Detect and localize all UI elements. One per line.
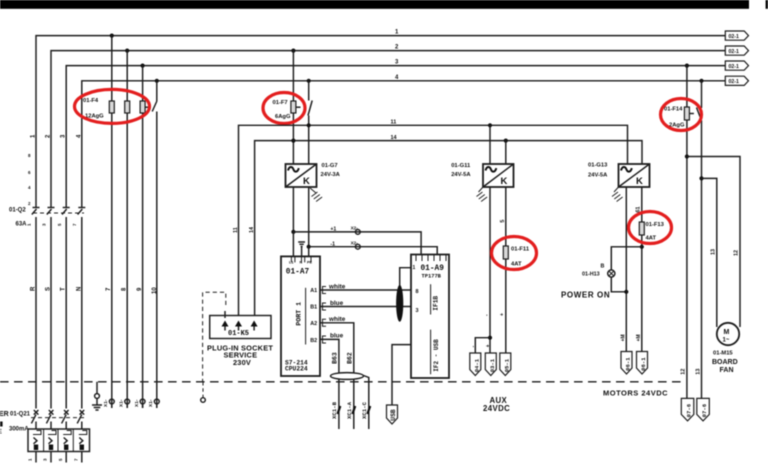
svg-text:05-1: 05-1 bbox=[503, 358, 510, 372]
svg-text:02-1: 02-1 bbox=[729, 79, 739, 85]
svg-text:A2: A2 bbox=[310, 321, 317, 327]
svg-text:11: 11 bbox=[233, 227, 239, 233]
svg-text:PE: PE bbox=[307, 261, 313, 265]
svg-text:1~: 1~ bbox=[723, 338, 730, 344]
svg-text:01-M15: 01-M15 bbox=[713, 351, 733, 357]
svg-text:IF2 - USB: IF2 - USB bbox=[433, 339, 440, 372]
svg-text:4AT: 4AT bbox=[511, 262, 522, 268]
svg-text:01-F4: 01-F4 bbox=[83, 98, 99, 104]
svg-text:X2-: X2- bbox=[351, 240, 359, 245]
svg-text:USB: USB bbox=[390, 409, 397, 421]
svg-text:K: K bbox=[501, 176, 508, 187]
svg-text:14: 14 bbox=[249, 226, 255, 233]
svg-text:N: N bbox=[76, 287, 82, 291]
svg-text:ER: ER bbox=[0, 411, 9, 418]
svg-text:X1-: X1- bbox=[134, 399, 140, 407]
svg-text:L1: L1 bbox=[289, 261, 293, 265]
svg-text:11: 11 bbox=[391, 119, 397, 125]
svg-text:02-1: 02-1 bbox=[729, 49, 739, 55]
svg-text:XC1-A: XC1-A bbox=[346, 401, 353, 419]
svg-text:X1-: X1- bbox=[148, 399, 154, 407]
svg-text:X2-: X2- bbox=[351, 226, 359, 231]
svg-text:B1: B1 bbox=[310, 305, 317, 311]
svg-text:230V: 230V bbox=[233, 358, 251, 367]
svg-text:24VDC: 24VDC bbox=[483, 404, 510, 413]
svg-text:01-G7: 01-G7 bbox=[322, 163, 338, 169]
svg-text:01-Q2: 01-Q2 bbox=[9, 208, 26, 214]
svg-text:A1: A1 bbox=[310, 288, 317, 294]
svg-text:24V-5A: 24V-5A bbox=[451, 172, 471, 178]
svg-text:X1-: X1- bbox=[103, 399, 109, 407]
svg-text:X1-: X1- bbox=[118, 399, 124, 407]
svg-text:MOTORS 24VDC: MOTORS 24VDC bbox=[603, 389, 668, 398]
svg-text:01-K5: 01-K5 bbox=[228, 330, 249, 338]
svg-text:03-1: 03-1 bbox=[489, 358, 496, 372]
svg-text:07-6: 07-6 bbox=[701, 403, 708, 417]
svg-text:13: 13 bbox=[711, 249, 717, 255]
svg-text:01-F7: 01-F7 bbox=[273, 100, 288, 106]
svg-text:01-H13: 01-H13 bbox=[582, 272, 600, 278]
svg-text:300mA: 300mA bbox=[9, 426, 29, 432]
svg-text:M: M bbox=[724, 329, 730, 336]
svg-text:B2: B2 bbox=[310, 338, 317, 344]
svg-text:B62: B62 bbox=[347, 352, 354, 364]
svg-text:8: 8 bbox=[416, 289, 419, 295]
svg-text:1: 1 bbox=[413, 265, 416, 271]
svg-text:B: B bbox=[601, 263, 605, 269]
svg-text:+M: +M bbox=[636, 334, 642, 341]
svg-text:06-1: 06-1 bbox=[625, 357, 632, 371]
svg-text:+M: +M bbox=[621, 334, 627, 341]
svg-text:K: K bbox=[303, 176, 310, 187]
svg-text:01-F14: 01-F14 bbox=[664, 107, 683, 113]
svg-text:POWER ON: POWER ON bbox=[561, 291, 610, 300]
svg-text:PORT 1: PORT 1 bbox=[296, 302, 303, 326]
svg-text:+: + bbox=[485, 344, 491, 347]
svg-text:R: R bbox=[31, 286, 37, 291]
svg-text:10: 10 bbox=[152, 287, 158, 294]
svg-text:S: S bbox=[46, 287, 52, 291]
svg-text:02-1: 02-1 bbox=[729, 64, 739, 70]
svg-text:14: 14 bbox=[391, 135, 398, 141]
svg-text:6AgG: 6AgG bbox=[275, 114, 291, 120]
svg-text:B63: B63 bbox=[332, 352, 339, 364]
svg-text:02-1: 02-1 bbox=[729, 34, 739, 40]
svg-text:13: 13 bbox=[696, 369, 702, 375]
svg-text:01-G13: 01-G13 bbox=[588, 163, 608, 169]
svg-text:T: T bbox=[61, 287, 67, 291]
svg-text:01-A9: 01-A9 bbox=[421, 265, 445, 273]
svg-text:63A: 63A bbox=[16, 221, 28, 227]
svg-text:IF1B: IF1B bbox=[433, 296, 440, 311]
svg-text:3: 3 bbox=[416, 308, 419, 314]
svg-text:24V-5A: 24V-5A bbox=[588, 172, 608, 178]
svg-text:+: + bbox=[500, 313, 506, 316]
svg-text:61: 61 bbox=[636, 206, 642, 212]
svg-text:XC1-C: XC1-C bbox=[361, 401, 368, 419]
svg-text:01-A7: 01-A7 bbox=[286, 268, 310, 276]
svg-text:blue: blue bbox=[330, 333, 344, 340]
svg-text:04-1: 04-1 bbox=[473, 358, 480, 372]
svg-text:01-F13: 01-F13 bbox=[646, 222, 665, 228]
svg-text:5: 5 bbox=[500, 220, 506, 223]
svg-text:N: N bbox=[300, 261, 303, 265]
svg-text:24V-3A: 24V-3A bbox=[321, 172, 341, 178]
svg-text:01-G11: 01-G11 bbox=[451, 163, 471, 169]
svg-text:TP177B: TP177B bbox=[422, 274, 442, 280]
svg-text:01-Q21: 01-Q21 bbox=[10, 411, 31, 417]
svg-text:CPU224: CPU224 bbox=[285, 365, 308, 372]
svg-text:07-6: 07-6 bbox=[686, 403, 693, 417]
svg-text:06-1: 06-1 bbox=[640, 357, 647, 371]
svg-text:12: 12 bbox=[681, 369, 687, 375]
svg-text:BOARD: BOARD bbox=[712, 359, 738, 366]
svg-text:+1: +1 bbox=[330, 227, 336, 233]
svg-text:4AT: 4AT bbox=[646, 236, 657, 242]
svg-text:white: white bbox=[328, 316, 346, 323]
svg-text:01-F11: 01-F11 bbox=[511, 247, 530, 253]
svg-text:XC1-B: XC1-B bbox=[331, 401, 338, 419]
svg-text:FAN: FAN bbox=[720, 367, 734, 374]
svg-text:K: K bbox=[636, 176, 643, 187]
svg-text:12: 12 bbox=[734, 250, 740, 256]
svg-text:-1: -1 bbox=[330, 242, 335, 248]
